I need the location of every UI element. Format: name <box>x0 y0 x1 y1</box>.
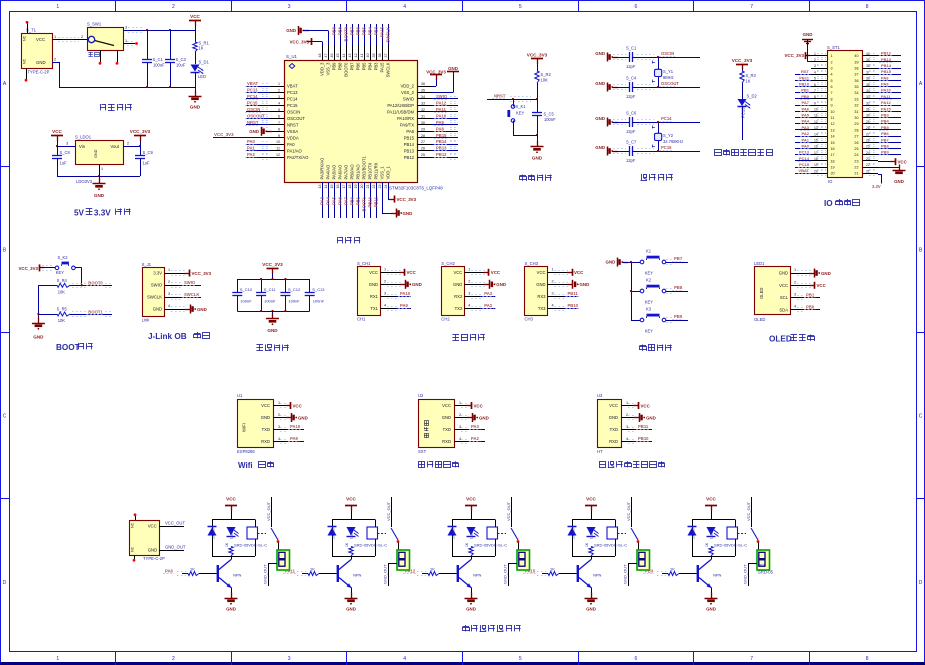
capacitor S_C9 1uF <box>135 146 153 176</box>
svg-text:VCC: VCC <box>706 497 716 502</box>
svg-text:3: 3 <box>288 4 291 10</box>
S_CH1 pin4 TX <box>380 303 411 310</box>
svg-text:PB6: PB6 <box>356 62 361 71</box>
svg-text:GND_OUT: GND_OUT <box>743 564 748 584</box>
junction boot0 <box>81 284 83 286</box>
svg-text:S_C12: S_C12 <box>288 287 301 292</box>
U2 pin1 VCC <box>454 401 484 409</box>
svg-text:OLED: OLED <box>769 335 792 344</box>
svg-text:12pF: 12pF <box>626 129 636 134</box>
S_CH3 pin3 RX <box>548 291 580 298</box>
power port VCC_3V3 ldo <box>130 129 151 146</box>
svg-text:3: 3 <box>468 292 470 296</box>
svg-text:RST: RST <box>801 69 810 74</box>
svg-text:39: 39 <box>854 60 858 64</box>
svg-text:D: D <box>3 580 7 586</box>
svg-text:38: 38 <box>854 67 858 71</box>
terminal block relay4 <box>637 550 650 570</box>
LED relay3 <box>467 527 479 539</box>
chip bottom pin 17 PA7/AO <box>342 164 349 218</box>
S_CH1 pin1 VCC <box>380 268 417 276</box>
svg-text:PB11: PB11 <box>374 196 379 207</box>
svg-text:9: 9 <box>814 101 816 105</box>
svg-text:1K: 1K <box>190 567 195 572</box>
svg-text:12pF: 12pF <box>626 158 636 163</box>
ST1 right pin 27 <box>854 131 901 139</box>
terminal block relay3 <box>517 550 530 570</box>
svg-text:PB13: PB13 <box>881 57 892 62</box>
svg-text:24: 24 <box>384 185 388 189</box>
transistor NPN relay4 <box>577 556 602 598</box>
svg-text:37: 37 <box>854 73 858 77</box>
svg-text:1K: 1K <box>430 567 435 572</box>
ST1 left pin 16 <box>795 144 835 152</box>
push button K2 KEY <box>631 277 688 304</box>
svg-text:VSS_2: VSS_2 <box>401 90 415 95</box>
svg-text:PB1: PB1 <box>356 196 361 205</box>
power port VCC_3V3 at VDD_2 <box>426 69 446 86</box>
svg-text:PB7: PB7 <box>674 256 683 261</box>
svg-text:4: 4 <box>168 304 170 308</box>
svg-text:PA10: PA10 <box>290 424 301 429</box>
label 晶振电路 <box>640 174 672 181</box>
relay5 JK1 text <box>758 563 774 575</box>
chip top pin 39 PB3 <box>372 24 379 70</box>
svg-text:27: 27 <box>866 132 870 136</box>
svg-text:42: 42 <box>354 54 358 58</box>
svg-text:34: 34 <box>421 95 425 99</box>
svg-text:11: 11 <box>276 147 280 151</box>
svg-text:S_J1: S_J1 <box>142 262 152 267</box>
svg-text:44: 44 <box>342 54 346 58</box>
svg-text:PA5: PA5 <box>332 196 337 205</box>
svg-text:3: 3 <box>384 292 386 296</box>
svg-text:27: 27 <box>854 135 858 139</box>
svg-text:VCC_3V3: VCC_3V3 <box>130 129 151 134</box>
svg-text:37: 37 <box>384 54 388 58</box>
svg-text:S_R4: S_R4 <box>57 278 68 283</box>
svg-text:GND: GND <box>803 32 813 37</box>
svg-text:PB0: PB0 <box>801 94 810 99</box>
transistor NPN relay2 <box>337 556 362 598</box>
svg-text:TYPE-C-2P: TYPE-C-2P <box>143 556 165 561</box>
connector S_CH3 body <box>525 261 548 321</box>
svg-text:10K: 10K <box>541 77 549 82</box>
diode 1N4007 relay5 <box>688 527 697 540</box>
svg-text:CH2: CH2 <box>441 316 450 321</box>
svg-text:2: 2 <box>552 280 554 284</box>
power port VCC_3V3 boot <box>18 264 55 271</box>
svg-text:S_K2: S_K2 <box>58 255 69 260</box>
svg-text:GND_OUT: GND_OUT <box>165 544 186 549</box>
svg-text:4: 4 <box>794 305 796 309</box>
svg-text:VCC: VCC <box>641 403 651 408</box>
svg-text:VCC: VCC <box>226 497 236 502</box>
label BOOT电路 <box>56 343 93 352</box>
svg-text:2: 2 <box>468 280 470 284</box>
wire LDO pin2 <box>123 141 140 146</box>
svg-text:GND: GND <box>821 271 831 276</box>
svg-text:PA1: PA1 <box>247 146 256 151</box>
svg-text:2: 2 <box>384 280 386 284</box>
svg-text:PA3: PA3 <box>802 125 810 130</box>
svg-text:PB9: PB9 <box>332 26 337 35</box>
svg-text:16: 16 <box>336 185 340 189</box>
svg-text:GND_OUT: GND_OUT <box>263 564 268 584</box>
S_CH3 pin1 VCC <box>548 268 585 276</box>
chip right pin 32 PA11/USB/DM <box>387 107 458 115</box>
svg-text:S_R3: S_R3 <box>746 73 757 78</box>
U3 pin2 GND <box>621 413 656 422</box>
svg-text:RXD: RXD <box>442 439 451 444</box>
svg-text:14: 14 <box>814 132 818 136</box>
ground GND filter <box>266 311 279 333</box>
svg-text:48: 48 <box>318 54 322 58</box>
ground GND at VSS_1 <box>382 182 412 218</box>
resistor S_R4 10K <box>38 278 112 295</box>
U2 pin4 RXD <box>454 436 485 443</box>
chip right pin 33 PA12/USB/DP <box>387 100 458 108</box>
ST1 left pin 19 <box>795 162 835 170</box>
svg-text:2: 2 <box>626 413 628 417</box>
chip left pin 2 PC13 <box>245 88 298 96</box>
svg-text:VCC: VCC <box>148 524 157 529</box>
ground GND ldo <box>93 176 106 198</box>
svg-text:PB15: PB15 <box>404 135 415 140</box>
svg-text:PA0: PA0 <box>287 142 295 147</box>
ground GND relay2 <box>345 593 358 612</box>
svg-text:26: 26 <box>421 147 425 151</box>
svg-text:GND: GND <box>466 607 476 612</box>
power port VCC relay4 <box>585 497 597 520</box>
wire filter bottom rail <box>237 311 309 313</box>
wire relay1 loop <box>212 520 256 557</box>
S_CH2 pin4 TX <box>464 303 495 310</box>
capacitor S_C3 10uF <box>165 30 186 87</box>
ground GND keys <box>606 258 631 267</box>
svg-text:TX3: TX3 <box>538 306 546 311</box>
OLED pin2 VCC <box>790 280 827 289</box>
LED relay2 <box>347 527 359 539</box>
svg-text:2: 2 <box>459 413 461 417</box>
svg-text:C: C <box>3 414 7 420</box>
ST1 right pin 25 <box>854 144 901 152</box>
resistor S_R2 10K <box>535 71 552 99</box>
ST1 right pin 39 <box>854 57 901 65</box>
svg-text:PA6: PA6 <box>338 196 343 205</box>
svg-text:NRST: NRST <box>287 122 299 127</box>
junction keys <box>630 261 632 292</box>
relay switch relay3 <box>506 497 520 552</box>
chip bottom pin 20 PB2/BOOT1 <box>360 156 367 218</box>
svg-text:8: 8 <box>831 97 833 101</box>
ST1 left pin 2 <box>811 58 833 65</box>
svg-text:PA1/AO: PA1/AO <box>287 148 303 153</box>
svg-text:GND: GND <box>153 307 162 312</box>
S_CH1 pin2 GND <box>380 280 422 289</box>
svg-text:VCC: VCC <box>52 129 62 134</box>
ground GND relay3 <box>465 593 478 612</box>
ground GND power <box>189 87 202 110</box>
module U2 body <box>418 393 455 454</box>
svg-text:VCC: VCC <box>293 403 303 408</box>
relay coil SRD relay4 <box>594 527 627 547</box>
svg-text:SRD-05VDC-SL-C: SRD-05VDC-SL-C <box>354 542 387 547</box>
wire filter top rail <box>237 279 309 281</box>
svg-text:23: 23 <box>866 157 870 161</box>
svg-text:C: C <box>919 414 923 420</box>
svg-text:PA9: PA9 <box>400 303 409 308</box>
ST1 right pin 28 <box>854 125 901 133</box>
svg-text:1N4007: 1N4007 <box>692 527 696 539</box>
svg-text:14: 14 <box>831 135 835 139</box>
svg-text:4: 4 <box>552 304 554 308</box>
svg-text:PA4/AO: PA4/AO <box>326 164 331 180</box>
svg-text:PB3: PB3 <box>881 113 890 118</box>
svg-text:PA8: PA8 <box>881 75 889 80</box>
svg-text:1N4007: 1N4007 <box>572 527 576 539</box>
svg-text:3: 3 <box>626 425 628 429</box>
OLED pin4 SDA <box>790 304 820 311</box>
transistor NPN relay5 <box>697 556 722 598</box>
svg-text:PB8: PB8 <box>338 62 343 71</box>
svg-text:6: 6 <box>814 83 816 87</box>
label module U2 <box>418 461 458 467</box>
svg-text:LED: LED <box>470 532 474 539</box>
resistor 1K relay5 led <box>705 542 713 556</box>
svg-text:100nF: 100nF <box>313 299 325 304</box>
chip left pin 8 VSSA <box>270 127 298 134</box>
svg-text:6: 6 <box>635 4 638 10</box>
svg-text:24: 24 <box>854 153 858 157</box>
svg-text:100nF: 100nF <box>240 299 252 304</box>
svg-text:PC13: PC13 <box>741 107 746 118</box>
svg-text:SWIO: SWIO <box>436 94 448 99</box>
capacitor S_C7 12pF row PC15 <box>595 140 700 164</box>
net GND_OUT <box>159 544 186 550</box>
jlink pin4 GND <box>164 304 207 314</box>
push button K3 KEY <box>631 306 688 333</box>
svg-text:VCC: VCC <box>190 14 200 19</box>
svg-text:VCC: VCC <box>586 497 596 502</box>
wire K2 to BOOT0 <box>75 268 82 286</box>
svg-text:VCC_3V3: VCC_3V3 <box>397 197 417 202</box>
svg-text:PB3: PB3 <box>374 26 379 35</box>
svg-text:GND: GND <box>646 415 656 420</box>
wire vcc to LDO pin3 <box>57 141 75 146</box>
svg-text:PA6: PA6 <box>165 568 174 573</box>
capacitor S_C4 12pF row OSCOUT <box>595 76 700 100</box>
svg-text:1K: 1K <box>345 542 349 547</box>
svg-text:36: 36 <box>421 82 425 86</box>
svg-text:5: 5 <box>519 656 522 662</box>
svg-text:PB13: PB13 <box>404 148 415 153</box>
chip top pin 47 VSS_3 <box>324 45 331 76</box>
terminal block relay2 <box>397 550 410 570</box>
ST1 right pin 35 <box>854 82 901 90</box>
svg-text:S_K1: S_K1 <box>516 104 527 109</box>
svg-text:20: 20 <box>831 172 835 176</box>
svg-text:PB5: PB5 <box>881 125 890 130</box>
ground GND at VSSA pin8 <box>249 127 272 136</box>
svg-text:PA2/TX/AO: PA2/TX/AO <box>287 155 309 160</box>
U1 pin4 RXD <box>273 436 304 443</box>
junction dots rail <box>146 29 171 31</box>
svg-text:22: 22 <box>854 166 858 170</box>
svg-text:PA1: PA1 <box>802 137 810 142</box>
label 程序运行指示灯 <box>714 149 772 156</box>
U1 pin1 VCC <box>273 401 303 409</box>
ST1 left pin 10 <box>795 106 835 114</box>
svg-text:BOOT0: BOOT0 <box>344 26 349 41</box>
OLED pin3 SCL <box>790 292 820 299</box>
ground GND at VSS_2 <box>432 66 459 93</box>
svg-text:34: 34 <box>854 91 858 95</box>
svg-text:VCC: VCC <box>817 283 827 288</box>
svg-text:3.3V: 3.3V <box>872 184 881 189</box>
ST1 right pin 23 <box>854 157 878 164</box>
svg-text:PC13: PC13 <box>247 88 258 93</box>
svg-text:8: 8 <box>866 4 869 10</box>
svg-text:GND: GND <box>595 81 605 86</box>
svg-text:VCC: VCC <box>779 283 788 288</box>
LED relay4 <box>587 527 599 539</box>
svg-text:PB7: PB7 <box>350 26 355 35</box>
svg-text:PA11: PA11 <box>285 568 296 573</box>
svg-text:VCC: VCC <box>466 497 476 502</box>
svg-text:VCC_3V3: VCC_3V3 <box>18 266 38 271</box>
svg-text:S_LDO1: S_LDO1 <box>75 135 92 140</box>
svg-text:1K: 1K <box>465 542 469 547</box>
push button S_K1 KEY <box>507 99 526 135</box>
power port VCC relay2 <box>345 497 357 520</box>
svg-text:13: 13 <box>831 128 835 132</box>
svg-text:40: 40 <box>366 54 370 58</box>
svg-text:GND: GND <box>261 415 270 420</box>
svg-text:GND: GND <box>442 415 451 420</box>
power port VCC ST1 pin23 <box>878 158 908 165</box>
svg-text:CH1: CH1 <box>357 316 366 321</box>
svg-text:SRD-05VDC-SL-C: SRD-05VDC-SL-C <box>474 542 507 547</box>
svg-text:KEY: KEY <box>516 111 524 116</box>
svg-text:PB0/AO: PB0/AO <box>350 164 355 180</box>
chip top pin 44 BOOT0 <box>342 24 349 77</box>
wire relay2 gnd_out <box>383 563 397 586</box>
svg-text:S_U1: S_U1 <box>286 54 298 59</box>
chip right pin 30 PA9/TX <box>400 120 458 128</box>
svg-text:1: 1 <box>101 167 103 171</box>
jlink pin1 VCC_3V3 <box>164 268 212 277</box>
svg-text:2: 2 <box>794 280 796 284</box>
relay coil SRD relay2 <box>354 527 387 547</box>
svg-text:VCC_OUT: VCC_OUT <box>266 501 271 521</box>
svg-text:13: 13 <box>814 126 818 130</box>
svg-text:GND: GND <box>595 116 605 121</box>
relay coil SRD relay3 <box>474 527 507 547</box>
svg-text:GND: GND <box>894 179 904 184</box>
chip bottom pin 19 PB1/AO <box>354 164 361 218</box>
svg-text:5V: 5V <box>74 209 85 218</box>
svg-text:TYPE-C-2P: TYPE-C-2P <box>28 70 50 75</box>
svg-text:1uF: 1uF <box>60 161 68 166</box>
svg-text:U2: U2 <box>418 393 424 398</box>
svg-text:8MHz: 8MHz <box>663 75 674 80</box>
svg-text:2: 2 <box>278 413 280 417</box>
svg-text:1: 1 <box>168 268 170 272</box>
svg-text:2: 2 <box>172 4 175 10</box>
ST1 right pin 33 <box>854 94 901 102</box>
svg-text:20: 20 <box>814 169 818 173</box>
svg-text:S_CH1: S_CH1 <box>357 261 371 266</box>
svg-text:PB12: PB12 <box>436 152 447 157</box>
module U3 body <box>597 393 622 454</box>
svg-text:16: 16 <box>831 147 835 151</box>
svg-text:1: 1 <box>56 656 59 662</box>
chip bottom pin 22 PB11/RX <box>372 162 379 218</box>
svg-text:PB1: PB1 <box>801 88 810 93</box>
svg-text:26: 26 <box>854 141 858 145</box>
svg-text:3: 3 <box>278 425 280 429</box>
svg-text:PC15: PC15 <box>661 145 672 150</box>
chip right pin 34 SWIO <box>403 94 458 102</box>
svg-text:PB9: PB9 <box>881 150 890 155</box>
S_CH3 pin2 GND <box>548 280 590 289</box>
svg-text:GND: GND <box>346 607 356 612</box>
svg-text:S_D1: S_D1 <box>199 59 210 64</box>
svg-text:41: 41 <box>360 54 364 58</box>
svg-text:S_C8: S_C8 <box>60 150 71 155</box>
svg-text:38: 38 <box>378 54 382 58</box>
svg-text:S_C3: S_C3 <box>176 57 187 62</box>
svg-text:PA9: PA9 <box>290 436 299 441</box>
svg-text:PA5: PA5 <box>802 113 810 118</box>
svg-text:1: 1 <box>794 268 796 272</box>
svg-text:29: 29 <box>421 127 425 131</box>
svg-text:39: 39 <box>866 58 870 62</box>
svg-text:1: 1 <box>278 82 280 86</box>
chip top pin 42 PB6 <box>354 24 361 70</box>
svg-text:NC: NC <box>23 35 27 41</box>
net label NRST <box>487 93 537 101</box>
svg-text:PB13: PB13 <box>436 146 447 151</box>
svg-text:GND: GND <box>496 282 506 287</box>
svg-text:GND: GND <box>197 307 207 312</box>
svg-text:PC14: PC14 <box>247 94 258 99</box>
junctions filter <box>260 278 287 312</box>
label module U3 <box>599 461 664 467</box>
chip right pin 28 PB15 <box>404 133 458 141</box>
svg-text:U1: U1 <box>237 393 243 398</box>
capacitor S_C12 100nF filter <box>280 279 301 311</box>
svg-text:PA2: PA2 <box>247 152 256 157</box>
svg-text:32: 32 <box>866 101 870 105</box>
junction dots reset <box>512 98 538 100</box>
label J-Link OB接口 <box>148 332 210 341</box>
svg-text:RXD: RXD <box>609 439 618 444</box>
svg-text:PA2: PA2 <box>471 436 480 441</box>
ST1 right pin 24 <box>854 150 901 158</box>
svg-text:VCC_3V3: VCC_3V3 <box>784 53 804 58</box>
svg-text:1: 1 <box>552 268 554 272</box>
label IO拓展口 <box>824 199 860 208</box>
svg-text:1K: 1K <box>199 46 204 51</box>
svg-text:5: 5 <box>278 108 280 112</box>
svg-text:100nF: 100nF <box>288 299 300 304</box>
power port VCC relay3 <box>465 497 477 520</box>
svg-text:S_SW1: S_SW1 <box>87 22 102 27</box>
svg-text:25: 25 <box>854 147 858 151</box>
junction c8 <box>56 145 58 147</box>
